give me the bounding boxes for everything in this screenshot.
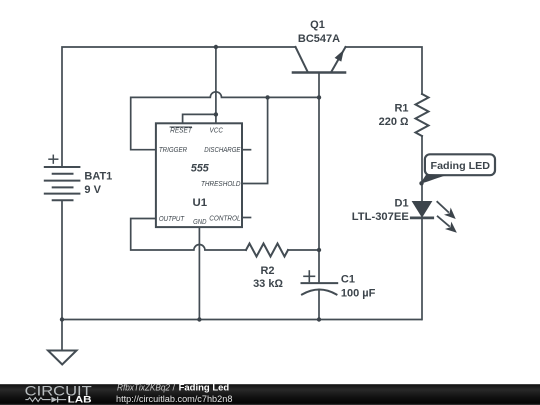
svg-text:Q1: Q1 <box>310 19 325 31</box>
svg-text:220 Ω: 220 Ω <box>379 116 409 128</box>
svg-text:U1: U1 <box>193 197 208 209</box>
wire OUTPUT down and right to R2 (hop over GND drop) <box>131 219 246 251</box>
svg-text:THRESHOLD: THRESHOLD <box>201 179 241 188</box>
diode D1 LED <box>412 201 433 218</box>
wire THRESHOLD up to node line <box>242 97 268 183</box>
capacitor C1 <box>302 283 338 294</box>
svg-text:555: 555 <box>191 163 210 175</box>
wire TRIGGER to node line (with hop over VCC drop) <box>131 92 319 150</box>
svg-text:9 V: 9 V <box>84 184 101 196</box>
wire Q1 base / C1 node vertical <box>318 73 320 284</box>
svg-text:Fading LED: Fading LED <box>431 160 491 172</box>
svg-text:100 µF: 100 µF <box>341 288 376 300</box>
wire GND drop from U1 to bottom rail <box>198 227 200 319</box>
callout tail <box>420 174 447 184</box>
svg-text:OUTPUT: OUTPUT <box>159 214 185 223</box>
wire LED cathode to bottom rail <box>421 218 423 320</box>
svg-text:BAT1: BAT1 <box>84 170 112 182</box>
svg-text:R2: R2 <box>260 265 274 277</box>
svg-text:C1: C1 <box>341 274 355 286</box>
wire R1 bottom to LED <box>421 136 423 201</box>
svg-text:VCC: VCC <box>210 126 224 135</box>
wire VCC drop from top rail to U1 VCC pin <box>215 47 217 123</box>
resistor R2 <box>246 244 288 257</box>
wire C1 bottom to rail <box>318 290 320 320</box>
pin stub CONTROL <box>242 217 251 219</box>
svg-text:CONTROL: CONTROL <box>209 213 240 222</box>
logo resistor squiggle <box>25 398 50 402</box>
transistor Q1 emitter arrow <box>335 50 344 62</box>
wire RESET jumper to VCC net <box>183 114 216 123</box>
svg-text:BC547A: BC547A <box>298 33 340 45</box>
svg-text:33 kΩ: 33 kΩ <box>253 278 283 290</box>
capacitor C1 plus sign <box>304 271 315 282</box>
LED light arrow 2 <box>435 213 461 237</box>
pin stub DISCHARGE <box>242 149 251 151</box>
wire R2 right to cap node <box>288 249 319 251</box>
transistor Q1 <box>293 47 346 73</box>
svg-text:DISCHARGE: DISCHARGE <box>204 145 240 154</box>
svg-text:LAB: LAB <box>68 395 92 405</box>
resistor R1 <box>416 94 429 136</box>
svg-text:RfbxTixZKBq2: RfbxTixZKBq2 <box>117 383 170 393</box>
svg-text:D1: D1 <box>395 198 409 210</box>
node dots <box>60 45 424 322</box>
battery plus sign <box>49 155 58 163</box>
wire Q1 emitter to R1 top <box>346 47 423 94</box>
IC U1 555 timer box <box>156 123 242 227</box>
wire bottom rail <box>62 319 422 321</box>
logo diode <box>51 397 57 403</box>
svg-text:LTL-307EE: LTL-307EE <box>352 211 409 223</box>
svg-text:R1: R1 <box>394 103 408 115</box>
wire top rail battery+ to Q1 collector <box>62 47 296 167</box>
svg-text:GND: GND <box>193 217 207 226</box>
ground <box>48 351 77 365</box>
svg-text:TRIGGER: TRIGGER <box>159 145 188 154</box>
svg-text:http://circuitlab.com/c7hb2n8: http://circuitlab.com/c7hb2n8 <box>116 394 232 404</box>
wire battery- down to ground <box>61 200 63 350</box>
LED light arrow 1 <box>434 198 459 222</box>
battery BAT1 plates <box>45 167 80 200</box>
callout Fading LED box <box>425 154 495 175</box>
svg-text:Fading Led: Fading Led <box>179 383 230 393</box>
